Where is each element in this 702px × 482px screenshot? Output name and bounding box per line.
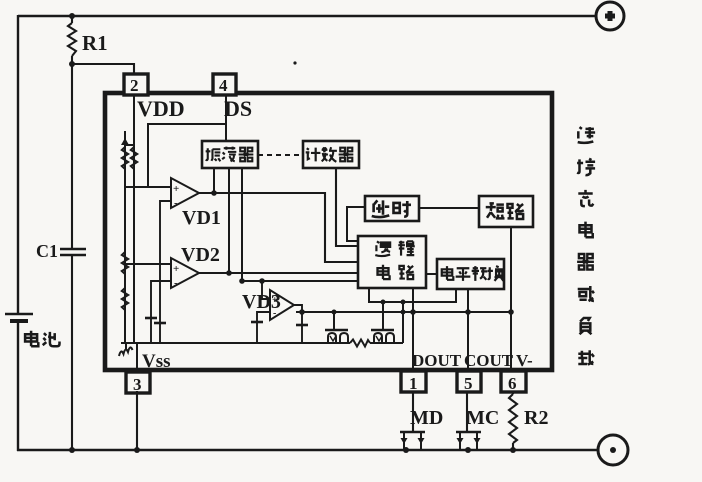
battery plates [5, 313, 33, 315]
left wire upper [17, 15, 19, 313]
divider sense line arrow [121, 138, 129, 145]
svg-text:VD1: VD1 [182, 207, 221, 229]
wire delay to short [419, 207, 479, 209]
VD2 minus return [151, 281, 171, 343]
transistor MD [400, 431, 425, 434]
delay label 延时 [372, 200, 390, 217]
top wire [18, 15, 595, 17]
oscillator box [202, 141, 258, 168]
comparator VD1 [171, 178, 199, 208]
VD3 plus input [262, 281, 270, 299]
transistor T1 gate [333, 312, 335, 330]
svg-text:DOUT: DOUT [412, 351, 462, 370]
resistor R2 [512, 392, 514, 394]
rail resistor zigzag [350, 340, 370, 347]
tap to VD1 plus [125, 186, 171, 188]
resistor squiggle A2 [122, 252, 128, 274]
svg-text:VD2: VD2 [181, 244, 220, 266]
svg-text:R1: R1 [82, 31, 108, 55]
logic label 电路 [378, 265, 390, 279]
level-shift label 电平转换 [442, 266, 454, 280]
counter box [303, 141, 359, 168]
transistor T2 [371, 329, 394, 331]
pin5 wire down [466, 392, 468, 432]
pin1 wire down [412, 392, 414, 432]
oscillator label 振荡器 [206, 148, 221, 161]
svg-text:6: 6 [508, 374, 517, 393]
divider bottom zigzag m1 [119, 343, 133, 356]
svg-text:DS: DS [224, 96, 252, 121]
svg-text:+: + [173, 183, 179, 195]
wire short down to pin6 [510, 227, 512, 371]
wire into logic lower [242, 280, 358, 282]
current source I4 [296, 324, 308, 327]
short label 短路 [486, 203, 505, 219]
svg-text:1: 1 [409, 374, 418, 393]
bottom wire [17, 449, 598, 451]
wire level-shift to pin5 COUT [467, 289, 469, 371]
bridge between divider lines [125, 144, 134, 146]
positive terminal [596, 2, 624, 30]
resistor squiggle A3 [122, 288, 128, 310]
transistor T2 gate [382, 302, 384, 330]
pin 5 [457, 371, 481, 392]
stray speck [293, 61, 296, 64]
svg-text:MD: MD [410, 407, 443, 429]
svg-text:Vss: Vss [142, 351, 171, 372]
logic bottom link wire [369, 288, 456, 302]
comparator VD2 [171, 258, 199, 288]
comparator VD3 [270, 290, 294, 320]
current source I2 [145, 317, 157, 320]
svg-text:4: 4 [219, 76, 228, 95]
transistor MC [456, 431, 481, 434]
pin4 feed to oscillator [225, 95, 227, 141]
svg-text:COUT: COUT [464, 351, 514, 370]
svg-text:+: + [173, 263, 179, 275]
wire logic to level-shift [426, 273, 437, 275]
node R1 bottom [69, 61, 75, 67]
VD3 output [294, 305, 302, 343]
internal ground rail [121, 342, 350, 344]
pin3 wire to bottom [136, 391, 138, 450]
pin 1 [401, 371, 426, 392]
pin 3 [126, 372, 150, 393]
resistor R1 [71, 16, 73, 23]
current source I1 [154, 322, 166, 325]
wire DS branch horizontal [148, 124, 226, 187]
left wire lower [17, 322, 19, 451]
svg-text:V-: V- [516, 351, 533, 370]
wire C1 to bottom [71, 255, 73, 450]
wire delay to logic left [347, 207, 365, 241]
wire R1 to pin2 [72, 64, 134, 75]
VDD internal feed line [133, 95, 135, 343]
IC body [105, 93, 552, 370]
counter label 计数器 [306, 148, 321, 162]
delay box [365, 196, 419, 221]
svg-text:MC: MC [466, 407, 499, 429]
svg-text:VDD: VDD [137, 96, 185, 121]
logic box [358, 236, 426, 288]
pin 6 [501, 371, 526, 392]
pin 4 [213, 74, 236, 95]
svg-text:C1: C1 [36, 241, 58, 261]
Vss to pin3 [136, 343, 138, 371]
svg-text:-: - [174, 197, 178, 209]
dashed link osc-counter [258, 154, 303, 156]
battery label 电池 [25, 331, 38, 347]
counter to logic [336, 168, 358, 246]
link rail right vertical [402, 302, 404, 343]
node top R1 [69, 13, 75, 19]
svg-text:R2: R2 [524, 407, 548, 429]
current source I3 [251, 321, 263, 324]
VD2 output wire [199, 272, 358, 274]
svg-text:2: 2 [130, 76, 139, 95]
svg-text:5: 5 [464, 374, 473, 393]
osc output stub 2 [228, 168, 230, 273]
horizontal rail [296, 311, 511, 313]
negative terminal [598, 435, 628, 465]
transistor T1 [325, 329, 348, 331]
logic label 逻辑 [375, 241, 390, 256]
resistor squiggle A1 [122, 147, 128, 169]
pin 2 [124, 74, 148, 95]
VD1 minus return [160, 201, 171, 343]
resistor squiggle B1 [131, 147, 137, 169]
short-circuit box [479, 196, 533, 227]
osc output stub 1 [213, 168, 215, 193]
osc output stub 3 [241, 168, 243, 281]
VD1 output route [199, 193, 358, 262]
tap to VD2 plus [125, 263, 171, 265]
wire logic to pin1 DOUT [412, 288, 414, 371]
VD3 minus input [257, 312, 270, 343]
svg-text:-: - [174, 277, 178, 289]
wire R1 to C1 [71, 64, 73, 249]
level-shift box [437, 259, 504, 289]
right column 连接充电器或负载 [578, 127, 595, 143]
capacitor C1 [60, 248, 86, 250]
